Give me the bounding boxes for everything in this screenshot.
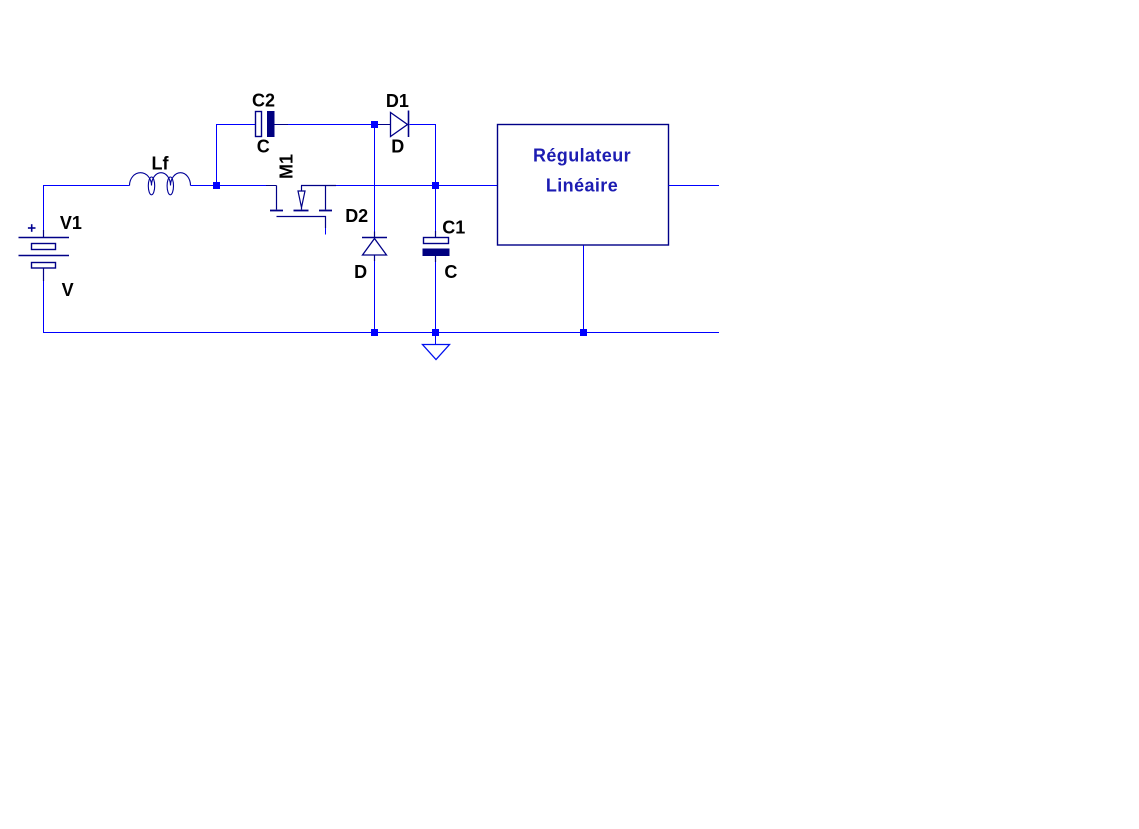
svg-text:D1: D1 [386,91,409,111]
svg-text:V1: V1 [60,213,82,233]
svg-text:Linéaire: Linéaire [546,176,618,196]
wire battery top to inductor [44,186,130,231]
wire regulator ground pin [583,246,585,330]
wire mosfet gate stub [325,228,327,235]
diode D2 [362,232,387,262]
battery V1 [19,230,70,281]
junction regulator ground [580,329,587,336]
wire regulator output [669,185,720,187]
wire inductor to node A [191,185,267,187]
wire node A up to C2 [217,125,256,186]
svg-text:Lf: Lf [152,154,170,174]
wire C1 to ground rail [435,262,437,329]
svg-text:C1: C1 [442,218,465,238]
wire node B down to D2 [374,128,376,232]
wire ground rail [43,332,719,334]
junction node C [432,182,439,189]
battery plus sign [28,224,36,232]
transistor M1 [270,186,336,229]
capacitor C2 [256,112,289,137]
svg-text:C: C [444,262,457,282]
svg-text:Régulateur: Régulateur [533,146,631,166]
junction D2 ground [371,329,378,336]
svg-text:C: C [257,136,270,156]
wire mosfet source to node C [336,185,432,187]
capacitor C1 [423,231,449,262]
junction C1 ground [432,329,439,336]
svg-text:V: V [62,280,74,300]
wire node C to regulator input [439,185,498,187]
junction node A [213,182,220,189]
op-amp U1 regulator box [498,125,669,246]
wire D2 anode to ground rail [374,261,376,329]
wire D1 cathode down to node C [410,125,436,183]
wire battery bottom to ground rail [43,281,45,332]
svg-text:M1: M1 [277,154,297,179]
wire C2 to node B [288,124,371,126]
svg-text:D: D [354,262,367,282]
junction node B [371,121,378,128]
svg-text:C2: C2 [252,91,275,111]
svg-text:D2: D2 [345,206,368,226]
inductor Lf [130,173,191,195]
wire node A to mosfet drain [266,185,277,187]
diode D1 [378,111,409,138]
svg-text:D: D [391,137,404,157]
ground [423,336,450,360]
wire node C down to C1 [435,189,437,231]
